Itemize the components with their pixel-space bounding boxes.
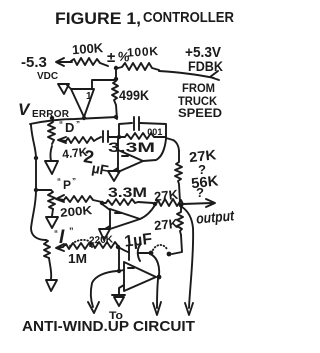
svg-text:D: D [65,120,74,135]
resistor R1 100K [71,58,108,66]
node A junction dot [114,66,118,70]
label "I" [54,226,74,248]
wire 27K down to contact [172,235,182,254]
wiper P arrow [56,195,64,202]
svg-text:“: “ [57,177,61,186]
node 499K bottom dot [114,115,118,119]
node U4 output dot [157,275,162,280]
node U3 output dot [153,202,157,206]
svg-text:3.3M: 3.3M [108,184,147,200]
node summing junction dot [179,203,184,208]
resistor R6 27K/56K vertical [175,151,182,202]
wire N4 down to U4 input [118,249,120,270]
resistor R9 27K (P out) [156,199,183,206]
wire U3 input diagonal [102,204,110,210]
wire U2 output to 27K/56K [166,138,179,151]
svg-text:ANTI-WIND.UP CIRCUIT: ANTI-WIND.UP CIRCUIT [22,318,195,335]
svg-text:1µF: 1µF [123,231,153,251]
wire node B to U1 inverting input [92,80,114,89]
svg-text:499K: 499K [119,87,149,103]
node U1 output dot [82,116,86,120]
wire to +5.3V FDBK with chevron [159,71,219,80]
ground G1 [58,84,69,94]
svg-text:ERROR: ERROR [32,109,70,120]
svg-text:”: ” [76,120,80,129]
svg-text:P: P [63,178,71,192]
wire node A down to node B [115,70,117,77]
svg-text:27K: 27K [153,187,179,204]
node U3 input dot [100,201,104,205]
svg-text:200K: 200K [60,203,93,220]
node switch contact dot [167,252,172,257]
svg-text:“: “ [59,120,63,129]
svg-text:“: “ [54,229,58,238]
ground G2 [108,171,120,181]
ground G-P [46,217,58,228]
ground stem D [50,146,52,161]
svg-text:V: V [18,100,31,119]
svg-text:1M: 1M [68,251,87,266]
svg-text:±: ± [107,49,115,66]
node rail P-tap dot [34,188,38,192]
wire left rail [31,125,46,240]
label +5.3V FDBK [185,45,223,74]
svg-text:100K: 100K [127,44,159,60]
wire U3 +input to ground [105,226,110,229]
svg-text:output: output [196,208,236,227]
resistor R3 499K [112,81,118,119]
title FIGURE 1, CONTROLLER [55,9,234,28]
svg-text:SPEED: SPEED [178,106,222,120]
op-amp U4 [124,262,156,291]
wire Verror horizontal [30,117,117,124]
svg-text:µF: µF [91,160,111,179]
svg-text:27K: 27K [153,216,179,233]
capacitor C2 .001 [134,117,139,130]
svg-text:56K: 56K [191,173,220,192]
wire anti-windup tap curve [88,271,117,313]
wire U4 +input step [119,285,124,294]
label "P" [57,177,76,192]
wire U4 output down arrow [153,279,161,315]
wire N4 to C3 [118,247,128,252]
wire feedback box top/right (D) [140,123,166,139]
svg-text:CONTROLLER: CONTROLLER [143,10,234,26]
op-amp U3 [110,209,140,229]
label 2uF [82,146,110,178]
node B junction dot [114,77,118,81]
svg-text:”: ” [72,177,76,186]
wiper D arrow [58,137,66,143]
wire U3 output diagonal [140,205,155,219]
wire U2 input stub [117,139,119,150]
svg-text:FDBK: FDBK [188,59,223,74]
resistor R4 4.7K [66,137,97,143]
label "D" [59,120,80,135]
wire U2 output up to box [143,139,166,161]
ground G4 [112,295,125,306]
resistor R11 1M [63,243,92,249]
node rail dot1 [34,156,38,160]
ground stem P [52,209,53,216]
label -5.3 VDC [21,54,58,82]
svg-text:220K: 220K [89,234,114,246]
resistor R12 220K [90,242,118,248]
wire rail to P pot [36,189,51,191]
svg-text:?: ? [196,185,204,200]
svg-text:FROM: FROM [182,81,215,95]
svg-text:-5.3: -5.3 [21,54,47,71]
label tolerance +/-% [107,49,130,66]
dotted switch arc [153,245,167,250]
resistor R5 3.3M (D) [119,133,166,139]
wire U2 +input to ground [113,168,118,171]
ground G-I [46,280,57,291]
wire 4.7K to C1 [97,137,101,139]
ground G-D [45,161,58,174]
node U2 input dot [117,135,121,139]
dotted wiper arc (I) [70,240,92,246]
label VERROR [18,100,70,120]
wire U4 feedback up to N5 [152,255,159,275]
op-amp U1 [71,89,94,117]
node N5 dot [149,251,154,256]
arrow output [183,199,215,207]
svg-text:100K: 100K [72,40,105,57]
resistor R8 3.3M (P) [102,199,153,205]
node N4 dot [116,245,120,249]
wiper I arrow [56,244,64,251]
resistor R10 27K (to switch) [177,207,183,235]
arrow to -5.3 VDC [56,58,72,66]
ground stem I [49,258,51,279]
node D-tap dot [50,116,54,120]
wire U1 +input to ground [67,85,71,89]
capacitor C1 2uF [103,131,119,142]
potentiometer P [48,190,55,209]
wire to U4 [119,270,124,271]
svg-text:3.3M: 3.3M [108,139,155,155]
wire long line to anti-windup [182,207,193,315]
potentiometer I [44,240,50,258]
wire feedback box left/top (D) [119,123,132,137]
capacitor C3 1uF [129,245,149,261]
resistor R7 200K [64,196,102,202]
label 27K? 56K? [188,146,219,200]
resistor R2 100K [118,63,159,70]
node U4 input dot [117,269,121,273]
op-amp U2 [118,150,143,172]
label FROM TRUCK SPEED [178,81,222,120]
potentiometer D [48,118,55,144]
ground G3 [99,229,110,240]
svg-text:VDC: VDC [37,71,58,82]
svg-text:1: 1 [86,91,92,102]
svg-text:FIGURE 1,: FIGURE 1, [55,9,141,28]
svg-text:”: ” [69,226,74,236]
